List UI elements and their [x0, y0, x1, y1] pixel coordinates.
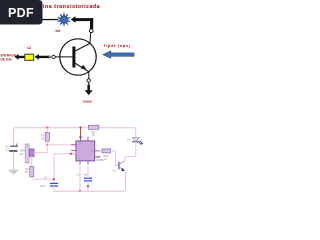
pot wiper box: [29, 149, 34, 157]
collector terminal node: [90, 29, 94, 33]
node pin2: [70, 153, 72, 155]
blue arrow pointing left at transistor: [103, 51, 134, 58]
svg-text:1A: 1A: [27, 46, 32, 50]
wire LED to Q1 collector: [125, 142, 136, 161]
svg-text:1K: 1K: [104, 157, 107, 161]
svg-text:100n: 100n: [40, 184, 46, 188]
wire IC pin1 to bottom rail: [79, 165, 81, 192]
svg-text:ina transistorizada: ina transistorizada: [43, 4, 101, 10]
node at C3 top: [53, 178, 55, 180]
svg-text:Q1: Q1: [113, 168, 117, 172]
wire C3 to bottom rail: [53, 186, 55, 191]
transistor Q1 (bottom schematic): [118, 162, 119, 170]
LED D1: [133, 138, 139, 142]
wire R5 to C3 top: [32, 177, 54, 179]
svg-text:9V: 9V: [6, 145, 9, 149]
node R7 bottom: [46, 144, 48, 146]
wire bottom rail: [54, 173, 126, 192]
potentiometer VR6: [25, 144, 29, 163]
wire node to IC pin 7: [47, 144, 76, 146]
emitter arrowhead: [81, 65, 87, 70]
wire C2 to bottom rail: [87, 181, 89, 186]
black arrow pointing left at input text: [14, 54, 24, 60]
thick arrow from collector wire pointing left at star: [71, 16, 94, 23]
wire top rail: [14, 128, 136, 145]
emitter line: [74, 63, 89, 72]
node on rail x48: [46, 126, 48, 128]
svg-text:Tip41 (npn): Tip41 (npn): [104, 43, 131, 48]
svg-text:1K: 1K: [92, 133, 95, 137]
resistor RB1 in rail: [89, 125, 99, 129]
emitter terminal node: [87, 79, 90, 82]
svg-text:D1: D1: [127, 138, 131, 142]
wire IC pin2 to C3: [54, 154, 76, 183]
node on rail x80.5: [79, 126, 81, 128]
capacitor C3: [51, 182, 58, 184]
IC U1 NE555: [72, 137, 100, 165]
node pin1 rail: [79, 190, 81, 192]
node at arrow tail: [48, 56, 50, 58]
fuse F1 yellow box: [25, 54, 34, 60]
svg-text:PDF: PDF: [8, 6, 34, 20]
base wire node to bar: [55, 56, 72, 58]
battery B1 plates: [11, 145, 17, 147]
wire corner down to collector terminal: [90, 18, 93, 29]
black arrow pointing left at fuse: [35, 54, 49, 60]
resistor R7: [46, 128, 48, 133]
resistor R5: [31, 157, 33, 167]
wire C2 top to IC: [87, 165, 89, 179]
wire RB2 to Q1 base: [111, 151, 119, 166]
base terminal node: [52, 55, 55, 58]
resistor RB2: [100, 150, 102, 152]
node C2 rail: [87, 185, 89, 187]
wire red drop to IC pin 8: [80, 128, 82, 137]
wire battery to ground: [13, 152, 15, 163]
collector line: [74, 43, 90, 51]
ground symbol: [13, 163, 15, 170]
emitter wire to terminal: [88, 72, 90, 79]
svg-text:DE 9.6v: DE 9.6v: [1, 57, 13, 61]
ground arrow below emitter: [88, 83, 89, 85]
wire terminal to transistor circle: [89, 32, 92, 43]
LED emission arrows: [139, 141, 143, 144]
svg-text:C2: C2: [76, 172, 80, 176]
wire jog C2: [87, 186, 89, 191]
svg-text:R5: R5: [25, 170, 29, 174]
wire wiper to node: [34, 145, 47, 153]
svg-text:masa: masa: [83, 99, 92, 103]
transistor Q1 (TIP41) circle: [60, 39, 96, 75]
svg-text:C1: C1: [6, 148, 10, 152]
capacitor C2: [85, 177, 92, 179]
base bar: [72, 47, 75, 68]
svg-text:1K: 1K: [41, 137, 44, 141]
wire from badge to led star: [43, 19, 59, 20]
svg-text:led: led: [56, 29, 61, 33]
LED star symbol: [58, 13, 70, 26]
PDF badge: [0, 0, 43, 25]
svg-text:1M: 1M: [20, 152, 24, 156]
